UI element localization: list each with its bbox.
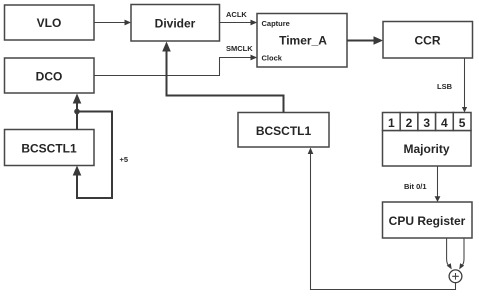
wire feedback adder to middle BCSCTL1 (308, 148, 456, 290)
block Timer_A (257, 14, 347, 68)
block Divider (131, 5, 220, 42)
wire Timer_A to CCR (thick) (347, 36, 383, 45)
wire junction up into DCO (thick) (73, 94, 82, 112)
svg-text:BCSCTL1: BCSCTL1 (256, 124, 312, 138)
junction node below DCO (74, 109, 80, 115)
bit cell 2 (400, 113, 418, 131)
wire +5 loop around BCSCTL1 (thick) (73, 112, 112, 199)
wire CPU Register right output to adder (459, 238, 464, 269)
svg-text:DCO: DCO (36, 70, 63, 84)
block VLO (5, 5, 95, 40)
svg-text:VLO: VLO (37, 16, 62, 30)
svg-text:Capture: Capture (262, 19, 290, 28)
svg-text:Bit 0/1: Bit 0/1 (404, 182, 427, 191)
svg-text:Divider: Divider (155, 17, 196, 31)
block BCSCTL1 (lower left) (5, 130, 95, 166)
wire Divider ACLK to Timer_A Capture (220, 20, 258, 26)
svg-text:Majority: Majority (403, 142, 449, 156)
svg-text:Clock: Clock (262, 54, 283, 63)
block CPU Register (383, 202, 473, 238)
svg-text:LSB: LSB (437, 82, 453, 91)
block DCO (5, 58, 95, 93)
svg-text:3: 3 (423, 116, 430, 130)
svg-text:Timer_A: Timer_A (279, 34, 327, 48)
svg-text:CCR: CCR (415, 34, 441, 48)
bit cell 3 (418, 113, 436, 131)
bit cell 4 (436, 113, 454, 131)
svg-text:CPU Register: CPU Register (389, 214, 466, 228)
block Majority with bit cells 1-5 (383, 131, 472, 167)
block CCR (383, 22, 473, 59)
bit cell 1 (383, 113, 401, 131)
svg-text:4: 4 (441, 116, 448, 130)
wire CPU Register left output to adder (447, 238, 452, 269)
bit cell 5 (453, 113, 471, 131)
svg-text:SMCLK: SMCLK (226, 44, 253, 53)
svg-text:1: 1 (388, 116, 395, 130)
svg-text:2: 2 (406, 116, 413, 130)
svg-text:BCSCTL1: BCSCTL1 (21, 142, 77, 156)
adder circle with plus (449, 270, 462, 283)
svg-text:ACLK: ACLK (226, 10, 247, 19)
wire CCR LSB down to bit cell 5 (462, 58, 467, 113)
wire Majority to CPU Register (435, 166, 441, 202)
block BCSCTL1 (middle) (238, 113, 329, 148)
wire VLO to Divider (94, 20, 131, 26)
wire middle BCSCTL1 up to Divider (thick) (162, 42, 283, 113)
svg-text:5: 5 (459, 116, 466, 130)
svg-text:+5: +5 (120, 155, 129, 164)
wire DCO SMCLK to Timer_A Clock (94, 55, 257, 76)
wire junction down to BCSCTL1 top (thick) (76, 112, 78, 130)
